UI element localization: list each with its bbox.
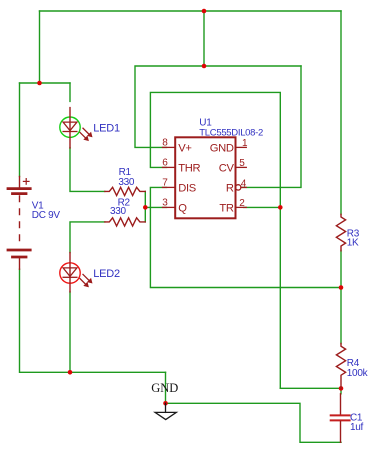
svg-text:THR: THR (178, 162, 200, 174)
wire DIS net (150, 187, 341, 287)
wire V+ pin 8 branch (135, 66, 301, 147)
svg-text:TLC555DIL08-2: TLC555DIL08-2 (199, 127, 263, 138)
pin 8 stub (163, 146, 176, 148)
svg-text:V+: V+ (178, 142, 191, 154)
svg-text:DIS: DIS (178, 182, 196, 194)
junction TR node (278, 205, 283, 210)
junction R3 R4 DIS node (339, 285, 344, 290)
wire THR net (150, 92, 280, 388)
wire THR-TR node to C1 top (280, 387, 341, 389)
svg-text:330: 330 (110, 206, 127, 217)
resistor R2 (105, 218, 146, 226)
svg-text:4: 4 (241, 178, 247, 189)
wire R3 bottom to junction (340, 251, 342, 288)
IC body (175, 137, 235, 218)
svg-text:1uf: 1uf (350, 422, 364, 433)
pin 3 stub (163, 206, 176, 208)
svg-text:1K: 1K (347, 238, 359, 249)
svg-text:GND: GND (210, 142, 234, 154)
wire TR pin to THR vertical (244, 206, 281, 208)
wire LED1 cathode to R1 (70, 148, 105, 192)
pin 6 stub (163, 166, 176, 168)
wire GND drop (165, 372, 167, 403)
svg-text:LED1: LED1 (93, 122, 120, 134)
wire battery top horizontal (20, 82, 71, 84)
junction LED2 bottom (68, 370, 73, 375)
svg-text:LED2: LED2 (93, 268, 120, 280)
svg-text:7: 7 (162, 177, 168, 188)
junction battery top (37, 81, 42, 86)
pin 2 stub (235, 206, 246, 208)
resistor R3 (336, 214, 345, 251)
battery plus sign (23, 179, 29, 185)
pin 7 stub (163, 186, 176, 188)
svg-text:5: 5 (239, 158, 245, 169)
wire top rail to V+ branch (203, 11, 205, 66)
junction V+ branch (202, 64, 207, 69)
LED2 (60, 253, 92, 292)
junction R1 R2 Q node (143, 205, 148, 210)
wire battery minus down and bottom rail (20, 269, 166, 372)
op-amp U1 IC TLC555 (162, 137, 248, 218)
wire junction to R4 top (340, 288, 342, 344)
wire GND to C1 bottom (166, 403, 342, 442)
wire R1-R2 right vertical (144, 191, 146, 222)
svg-text:GND: GND (151, 381, 178, 395)
junction R4 C1 node (339, 386, 344, 391)
wire R4 bottom junction to C1 (340, 388, 342, 393)
pin 5 stub (235, 166, 246, 168)
svg-text:DC 9V: DC 9V (32, 210, 61, 221)
wire LED1 anode drop (69, 83, 71, 101)
LED1 (60, 108, 92, 148)
svg-text:R: R (226, 182, 234, 194)
junction GND node (163, 401, 168, 406)
wire left drop from top rail (39, 11, 41, 83)
capacitor C1 (331, 394, 350, 443)
svg-text:6: 6 (162, 157, 168, 168)
svg-text:1: 1 (242, 138, 248, 149)
wire R2 left to LED2 anode (70, 222, 105, 253)
svg-text:2: 2 (239, 198, 245, 209)
wire V+ rail to R3 (340, 11, 342, 214)
svg-text:100k: 100k (347, 368, 369, 379)
pin 4 stub with bubble (236, 185, 241, 190)
battery V1 (8, 177, 30, 270)
svg-text:CV: CV (219, 162, 235, 174)
junction top rail (202, 9, 207, 14)
wire LED2 cathode down (69, 292, 71, 372)
wire junction to pin Q (145, 206, 166, 208)
wire battery plus drop (19, 83, 21, 177)
wire top rail V+ (40, 10, 342, 12)
svg-text:Q: Q (178, 202, 187, 214)
svg-text:8: 8 (162, 137, 168, 148)
svg-text:330: 330 (118, 177, 135, 188)
pin 1 stub (235, 146, 246, 148)
svg-text:3: 3 (162, 197, 168, 208)
svg-text:TR: TR (219, 202, 233, 214)
resistor R4 (336, 344, 345, 389)
wire reset pin 4 to V+ (243, 66, 302, 187)
ground symbol (155, 403, 176, 419)
resistor R1 (105, 187, 146, 195)
